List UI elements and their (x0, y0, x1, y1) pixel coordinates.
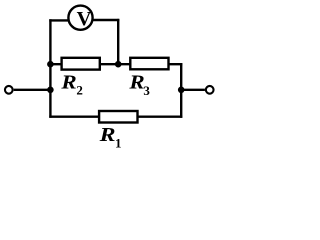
svg-text:R: R (128, 72, 144, 94)
svg-text:2: 2 (76, 83, 83, 98)
svg-text:R: R (98, 124, 115, 146)
svg-text:3: 3 (143, 83, 150, 98)
svg-text:1: 1 (115, 135, 122, 150)
svg-text:R: R (60, 72, 76, 94)
svg-text:V: V (77, 8, 92, 30)
